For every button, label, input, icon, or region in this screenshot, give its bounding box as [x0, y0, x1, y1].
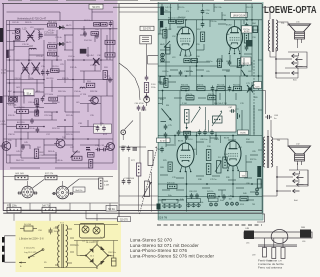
extra purple wires and junctions — [7, 9, 114, 168]
svg-text:UKW 2/104: UKW 2/104 — [233, 14, 246, 17]
capacitor C14 left — [160, 147, 164, 153]
svg-text:Si 0.2A: Si 0.2A — [24, 223, 31, 226]
bridge vertex circles — [85, 255, 87, 257]
transformer center tap leads — [70, 238, 76, 252]
resistor R14 — [105, 40, 115, 44]
resistor R24 — [86, 83, 95, 87]
tube V1 pin resistors — [184, 59, 190, 63]
capacitor C80 C81 pair — [190, 193, 194, 199]
svg-text:C49 5n: C49 5n — [165, 7, 171, 9]
voltage selector switch — [28, 249, 44, 259]
resistor chain R33 — [223, 157, 227, 168]
wire teal v225b — [225, 91, 227, 106]
wire purple v7 — [100, 29, 102, 70]
svg-text:L.Brücke bei 220V~ 5·N: L.Brücke bei 220V~ 5·N — [19, 238, 44, 241]
resistor row R63 — [234, 86, 242, 90]
resistor R11 — [101, 23, 108, 27]
wire af line — [3, 176, 113, 178]
labels row above — [181, 83, 251, 86]
wire jack2 right — [307, 170, 309, 186]
capacitor C63a — [246, 60, 250, 66]
wire socket V6 diag — [68, 179, 80, 188]
wire C66 down — [270, 120, 272, 137]
wire teal h66 — [170, 65, 210, 67]
left edge dark mark — [0, 96, 3, 103]
wire teal h76 — [158, 75, 262, 77]
white label box 52 070-4 — [118, 217, 131, 222]
rectifier bridge Gr1 — [80, 241, 112, 269]
capacitor C112 — [96, 148, 102, 152]
wire teal top h — [158, 19, 262, 21]
main vertical wire between sections — [118, 4, 120, 221]
wire terminal stem — [122, 135, 124, 141]
power transformer Tr3 — [58, 224, 68, 268]
switch contact row C — [209, 202, 212, 206]
svg-text:C19 4n: C19 4n — [55, 37, 63, 39]
wire purple h8 — [14, 107, 44, 109]
svg-text:C24 5n: C24 5n — [68, 56, 76, 58]
svg-text:R22 4k: R22 4k — [66, 115, 74, 117]
dark capacitor C51 — [160, 21, 163, 28]
resistor R54 — [169, 20, 176, 24]
svg-text:R54 150: R54 150 — [178, 17, 186, 19]
dark component L5 — [80, 49, 87, 54]
svg-text:2.2M: 2.2M — [104, 185, 109, 187]
wire purple v3 — [20, 75, 22, 158]
svg-text:52 071: 52 071 — [160, 140, 167, 142]
capacitor C17a — [39, 33, 43, 39]
wire below box v196 — [196, 132, 198, 140]
resistor R5 — [48, 23, 57, 27]
wire purple h5 — [67, 59, 113, 61]
svg-text:R66 50k: R66 50k — [214, 103, 221, 105]
svg-text:C17a 10n: C17a 10n — [44, 33, 55, 35]
wire inner right — [112, 21, 114, 163]
tube V1 triode — [177, 27, 194, 54]
potentiometer P5 body — [148, 151, 153, 166]
output transformer Tr2 — [263, 136, 272, 168]
wire teal v170 top — [170, 4, 172, 20]
svg-text:C79 5n: C79 5n — [210, 179, 216, 181]
resistor R77 — [137, 163, 141, 176]
svg-text:S4c: S4c — [200, 202, 203, 204]
headphone jack contacts Bu5 — [275, 48, 307, 78]
svg-text:R61 50k: R61 50k — [217, 84, 224, 86]
svg-text:P 2M: P 2M — [222, 103, 227, 105]
capacitor C62a — [228, 60, 232, 66]
svg-text:Luna-Phono-Stereo 52 076: Luna-Phono-Stereo 52 076 — [130, 248, 188, 253]
capacitor chain right of V2 — [245, 23, 249, 29]
model list text — [130, 238, 215, 259]
svg-text:52/6 7M: 52/6 7M — [159, 217, 168, 220]
svg-text:52 071: 52 071 — [242, 63, 249, 65]
switch label box row B — [187, 199, 201, 203]
resistor R56 vert — [163, 30, 167, 39]
wire gap v2 — [139, 112, 141, 163]
svg-text:C57 5n: C57 5n — [243, 29, 249, 31]
svg-text:R08 116: R08 116 — [48, 50, 57, 52]
white label box 52 0A — [106, 205, 117, 211]
mains arrow — [19, 262, 26, 264]
wire gap chain — [141, 44, 147, 110]
coil L19 dark — [6, 50, 9, 58]
tube V2 pin circles — [229, 53, 231, 55]
switch contact pair E — [255, 187, 258, 191]
svg-text:R23 116: R23 116 — [52, 128, 61, 130]
capacitor C23 — [46, 70, 50, 76]
svg-text:R51 1k: R51 1k — [178, 7, 184, 9]
dark capacitor pair — [86, 148, 90, 150]
wire sockets link — [79, 178, 99, 180]
ground bus wire lower — [3, 210, 262, 212]
B+ rail wire teal right edge — [258, 4, 262, 214]
antenna terminal Bu1 — [16, 30, 20, 34]
wire teal h135 — [158, 135, 262, 137]
tube V3 output pentode — [177, 143, 194, 171]
switch dark box left end — [157, 204, 161, 210]
white label box right mid — [254, 82, 262, 89]
capacitor C33 — [108, 77, 112, 83]
svg-text:C64 4700: C64 4700 — [135, 103, 145, 105]
wire purple v11 — [28, 49, 30, 62]
wire top right cluster — [64, 28, 118, 30]
capacitor C104 — [210, 130, 214, 136]
svg-text:C33 5n: C33 5n — [90, 65, 98, 67]
diode D5 diag — [164, 41, 170, 48]
svg-text:R17 27k: R17 27k — [45, 173, 54, 175]
capacitor C56 — [201, 22, 205, 28]
wire teal h184 — [158, 183, 262, 185]
wire gap diagonal — [119, 63, 140, 100]
svg-text:R37 1k: R37 1k — [250, 159, 256, 161]
ground bus wire 2 — [3, 212, 262, 214]
svg-text:S4d: S4d — [220, 200, 224, 202]
wire Tr2 to LS2 — [273, 139, 289, 147]
wire purple h9 — [7, 119, 58, 121]
potentiometer P6 arrow — [142, 182, 152, 198]
white label box EL95 — [157, 138, 171, 142]
resistor R6 — [48, 45, 57, 49]
teal junction dots — [162, 19, 260, 197]
capacitor C58 — [245, 45, 249, 51]
teal region edge lines — [158, 2, 263, 220]
switch contact row D — [225, 202, 228, 206]
svg-text:C98 50u: C98 50u — [108, 252, 117, 254]
wire gap h196 — [119, 195, 158, 197]
svg-text:R9 116: R9 116 — [52, 66, 59, 68]
antenna trimmer C77a — [281, 248, 285, 259]
svg-text:P 1M: P 1M — [182, 103, 187, 105]
white label box 52k — [240, 172, 248, 178]
svg-text:EC92: EC92 — [244, 31, 250, 33]
dark capacitor C49 top — [160, 7, 164, 16]
svg-text:EL95: EL95 — [240, 133, 246, 135]
svg-text:0 110-125v: 0 110-125v — [24, 248, 36, 250]
tube V1 top stem — [185, 20, 187, 27]
svg-text:R05 116: R05 116 — [48, 21, 57, 23]
svg-text:R56 5k: R56 5k — [186, 94, 192, 96]
tube V3 top stem — [185, 136, 187, 143]
dashed vert teal — [253, 60, 255, 136]
svg-text:C02 40: C02 40 — [12, 22, 20, 24]
tube V2 top stem — [234, 20, 236, 27]
capacitor C9 — [109, 21, 113, 27]
dial lamp La1 — [82, 226, 89, 233]
transistor T2 — [0, 142, 11, 151]
switch contact row B — [187, 203, 190, 207]
wire teal h196 — [158, 196, 262, 198]
resistor R55 — [177, 20, 184, 24]
coil L7 — [80, 87, 85, 88]
resistor R64 in box with arrow — [185, 110, 190, 124]
section divider wire left — [3, 202, 118, 204]
border corner bottom right — [257, 214, 265, 222]
wire gap h205 — [119, 204, 158, 206]
terminal teal1 — [161, 53, 164, 56]
capacitor row C71 — [211, 86, 215, 92]
tube socket V5 bottom view — [22, 186, 34, 198]
resistor R99 — [72, 156, 82, 160]
capacitor C96 — [49, 228, 53, 235]
resistor R41 — [208, 194, 216, 198]
svg-text:R100: R100 — [86, 150, 92, 152]
electrolytic C98 — [112, 258, 117, 266]
white label box 52 070 gap — [140, 26, 154, 30]
resistor R13 vert — [164, 79, 168, 88]
capacitor C100 input — [179, 70, 183, 76]
resistor R73 box — [7, 207, 21, 213]
resistor R21 — [17, 110, 29, 114]
svg-text:C112 C99: C112 C99 — [95, 145, 105, 147]
wire purple h10 — [14, 131, 80, 133]
capacitor C64 pair — [137, 105, 141, 111]
arrows mid right teal — [242, 70, 246, 76]
svg-text:C45 10: C45 10 — [16, 151, 24, 153]
capacitor C27 — [41, 96, 45, 102]
wire teal v241 — [240, 20, 242, 76]
tube socket V6 bottom view — [56, 186, 69, 199]
svg-text:R64 116: R64 116 — [16, 160, 25, 162]
wire gap down3 — [151, 172, 153, 212]
left border wire — [2, 4, 4, 211]
switch label box row C — [209, 198, 219, 202]
white inset box in purple region — [94, 124, 112, 133]
capacitor at socket V5 left — [17, 192, 21, 195]
white label box Bu8 — [73, 187, 85, 192]
IF can coil inside — [142, 37, 149, 41]
potentiometer P2 diag arrow — [191, 106, 201, 122]
svg-text:R07 1k: R07 1k — [84, 20, 92, 22]
terminal circle gap mid — [144, 97, 150, 103]
resistor row2 R56a — [186, 96, 194, 100]
loudspeaker LS2 — [289, 146, 311, 165]
resistor R15 — [105, 53, 115, 57]
resistor R8 — [48, 52, 57, 56]
resistor R74 box — [42, 207, 56, 213]
extra teal wires — [158, 4, 259, 200]
capacitor C118 pair — [122, 179, 126, 185]
resistor R35 — [184, 131, 191, 135]
potentiometer P4 vert with arrow — [217, 161, 221, 174]
capacitor C31 — [36, 127, 40, 133]
svg-text:C34 4n: C34 4n — [74, 91, 82, 93]
switch label box row A — [162, 199, 178, 203]
resistor row2 R58a — [208, 96, 216, 100]
svg-text:0v8 71v: 0v8 71v — [42, 205, 51, 207]
resistor row R58 — [197, 86, 205, 90]
wire between R73 R74 — [21, 209, 42, 211]
wire yellow top rail — [74, 224, 118, 226]
wire gap top link — [113, 6, 160, 8]
wire Tr2 top — [267, 130, 269, 137]
resistor R9 — [51, 69, 60, 73]
wire c50 v — [202, 4, 204, 8]
wire purple v5 — [56, 30, 58, 60]
svg-text:R6B: R6B — [301, 227, 306, 229]
capacitor C66 — [265, 115, 272, 119]
variable capacitor C2 tuning gang — [26, 31, 35, 42]
wire teal v252 — [251, 4, 253, 76]
svg-text:R28 1M: R28 1M — [90, 91, 98, 93]
switch contact row A — [163, 204, 166, 208]
svg-text:0A 79: 0A 79 — [66, 41, 72, 44]
trimmer stems — [265, 238, 284, 248]
antenna coil right hatched — [300, 230, 311, 238]
capacitor C99 — [102, 148, 108, 152]
white label box 52 070 top — [89, 4, 103, 9]
svg-text:52 0A: 52 0A — [108, 208, 115, 211]
capacitor C117 dark — [133, 148, 138, 150]
wire purple h1 — [7, 24, 48, 26]
wire lamp drops — [85, 225, 96, 228]
capacitors in white inset — [96, 126, 100, 132]
svg-text:CDN: CDN — [40, 155, 45, 157]
tube V3 pin circles — [180, 171, 182, 173]
svg-text:4700: 4700 — [1, 72, 7, 74]
wire teal h90 — [158, 90, 262, 92]
wire loop from teal upper — [148, 56, 159, 64]
svg-text:C55 4n: C55 4n — [210, 21, 216, 23]
white label box EC92 V2 — [242, 26, 253, 33]
resistor R12 — [91, 32, 99, 36]
resistor R60 — [144, 83, 148, 93]
capacitor C45 — [21, 144, 25, 150]
wire teal v175 tube3 — [174, 136, 176, 147]
wire purple v8 — [100, 96, 102, 126]
wire purple h12 — [21, 157, 57, 159]
sprinkled value labels teal — [160, 7, 259, 206]
resistor R25 vert — [168, 162, 172, 172]
variable capacitor C20 gang2 — [21, 63, 30, 75]
wire purple v4 — [43, 40, 45, 96]
svg-text:C15 30: C15 30 — [22, 44, 30, 46]
svg-text:Lng 112-127v: Lng 112-127v — [24, 252, 38, 254]
diode D2 — [57, 42, 65, 46]
teal mid-left dark box — [160, 77, 165, 85]
svg-text:L7 116: L7 116 — [80, 94, 87, 96]
capacitor at socket V5 right — [33, 192, 37, 195]
IF can box gap — [140, 35, 152, 44]
svg-text:C68 10n: C68 10n — [200, 139, 208, 141]
wire speaker down — [297, 43, 299, 48]
wire purple v9 — [109, 29, 111, 60]
tube V2 triode — [227, 27, 243, 53]
capacitor C68 — [177, 130, 181, 136]
svg-text:R58 5k: R58 5k — [208, 94, 214, 96]
cut dashed line below teal — [157, 224, 262, 226]
variable capacitor C30 — [93, 58, 100, 65]
svg-text:C4B: C4B — [245, 228, 250, 230]
wire gap h147 — [119, 146, 146, 148]
wire drop x86 — [85, 210, 87, 219]
white label box 52 071 right — [241, 57, 252, 65]
svg-text:R14 116: R14 116 — [84, 40, 93, 42]
svg-text:1500p: 1500p — [54, 231, 61, 233]
capacitor C116 pair — [121, 146, 125, 152]
svg-text:R70 100: R70 100 — [167, 182, 175, 184]
svg-text:R53 1M: R53 1M — [246, 7, 253, 9]
wire right v265 — [265, 91, 267, 115]
wire yellow bottom rail — [44, 267, 97, 269]
coil L15 squiggle — [38, 31, 39, 40]
capacitor C50 — [201, 9, 205, 15]
tube V4 output pentode — [225, 141, 241, 170]
ferrite rod antenna bar — [244, 232, 312, 238]
svg-text:52 070: 52 070 — [92, 6, 100, 9]
wire gap diagonal2 — [125, 121, 134, 130]
capacitor C28 stack — [36, 103, 40, 109]
wire into yellow from bus — [14, 214, 118, 221]
wire teal v186 drop — [186, 171, 188, 212]
svg-text:C7b 116: C7b 116 — [17, 107, 26, 109]
svg-text:R11 1k: R11 1k — [160, 30, 166, 32]
wire ticks to bus — [10, 203, 110, 211]
wire teal v163 low — [162, 91, 164, 106]
purple junction dots — [9, 28, 111, 140]
resistor R66 in box — [213, 116, 223, 123]
resistor row R56 — [181, 86, 189, 90]
dark mark right col2 — [246, 40, 253, 47]
wire purple v2 — [13, 41, 15, 108]
transistor T3 — [54, 139, 65, 148]
antenna base plate wire — [258, 244, 297, 246]
wire gap down2 — [138, 176, 140, 212]
capacitor C83 — [222, 194, 226, 200]
dark electrolytic C88 — [257, 179, 261, 188]
coil L18 — [29, 48, 36, 49]
wire purple h2 — [7, 41, 26, 43]
wire teal to Tr1 — [262, 7, 270, 19]
transistor T1 — [89, 97, 99, 105]
svg-text:R52 20k: R52 20k — [214, 7, 221, 9]
svg-text:EC92: EC92 — [226, 25, 232, 27]
svg-text:R29 1k: R29 1k — [66, 134, 74, 136]
svg-text:C48 4n: C48 4n — [56, 160, 64, 162]
wire jack2 down — [262, 195, 277, 197]
white label box UKW — [231, 12, 248, 17]
svg-text:C63 5n: C63 5n — [162, 71, 168, 73]
capacitor C103 pair — [198, 130, 202, 136]
capacitor C60 — [145, 75, 149, 81]
svg-text:R06 116: R06 116 — [48, 43, 57, 45]
terminal pair Bu2 — [9, 97, 13, 101]
antenna trimmer C79 — [263, 248, 267, 258]
wire teal v233 drop — [232, 168, 234, 197]
resistor R48 — [99, 178, 103, 189]
output transformer Tr1 — [268, 19, 277, 52]
highlight region AF amplifier section (teal) — [158, 2, 263, 220]
resistor R70 — [168, 184, 178, 188]
